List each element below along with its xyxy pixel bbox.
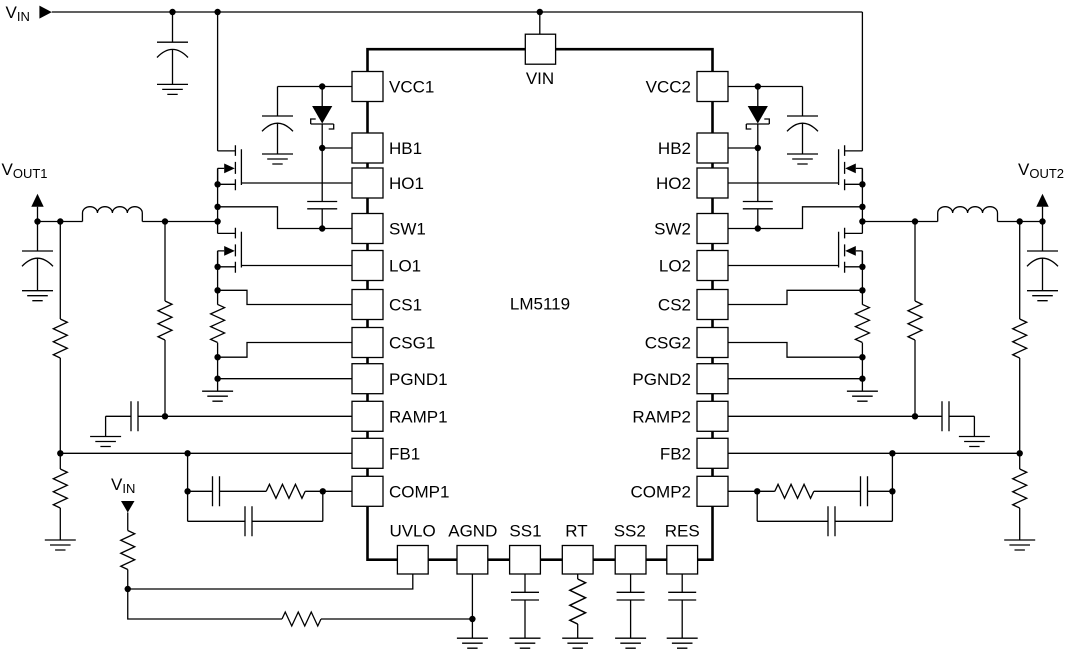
svg-text:SS1: SS1 (509, 522, 541, 541)
svg-text:RAMP2: RAMP2 (632, 408, 691, 427)
svg-text:UVLO: UVLO (389, 522, 435, 541)
svg-text:HB2: HB2 (658, 139, 691, 158)
svg-text:VCC2: VCC2 (646, 78, 691, 97)
svg-text:HO1: HO1 (389, 174, 424, 193)
svg-text:LO1: LO1 (389, 257, 421, 276)
svg-text:LO2: LO2 (659, 257, 691, 276)
svg-text:RES: RES (665, 522, 700, 541)
svg-text:RT: RT (565, 522, 587, 541)
svg-text:SW2: SW2 (654, 220, 691, 239)
svg-text:VIN: VIN (526, 69, 554, 88)
svg-text:FB1: FB1 (389, 445, 420, 464)
svg-text:COMP2: COMP2 (631, 483, 691, 502)
svg-text:PGND2: PGND2 (632, 370, 691, 389)
svg-text:SW1: SW1 (389, 220, 426, 239)
svg-text:CSG2: CSG2 (645, 334, 691, 353)
svg-text:AGND: AGND (448, 522, 497, 541)
svg-text:CS2: CS2 (658, 296, 691, 315)
svg-text:COMP1: COMP1 (389, 483, 449, 502)
svg-text:HO2: HO2 (656, 174, 691, 193)
svg-text:FB2: FB2 (660, 445, 691, 464)
svg-text:VCC1: VCC1 (389, 78, 434, 97)
svg-text:CSG1: CSG1 (389, 334, 435, 353)
svg-text:LM5119: LM5119 (510, 295, 570, 314)
svg-text:PGND1: PGND1 (389, 370, 448, 389)
svg-text:SS2: SS2 (614, 522, 646, 541)
svg-text:HB1: HB1 (389, 139, 422, 158)
svg-text:RAMP1: RAMP1 (389, 408, 448, 427)
svg-text:CS1: CS1 (389, 296, 422, 315)
